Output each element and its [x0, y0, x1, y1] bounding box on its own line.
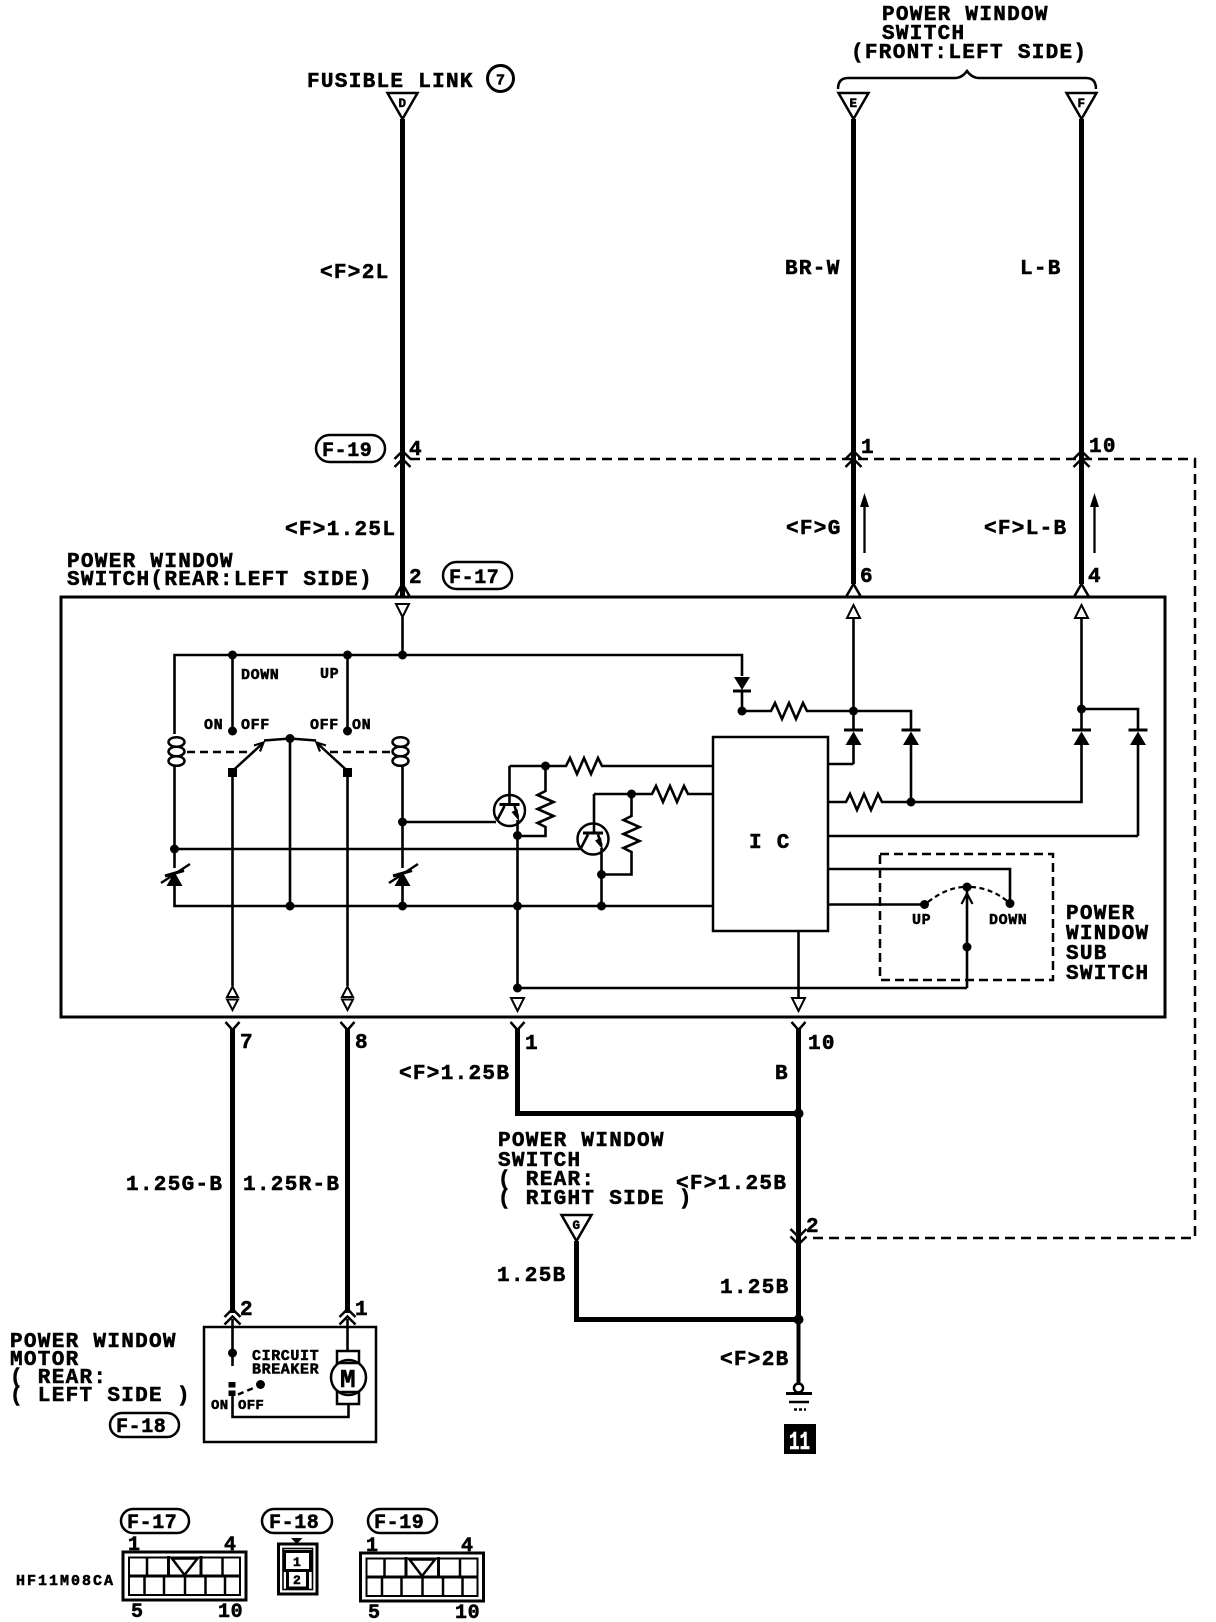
- svg-text:F-19: F-19: [322, 440, 372, 463]
- svg-text:2: 2: [293, 1573, 301, 1588]
- svg-text:F-18: F-18: [269, 1512, 319, 1535]
- exit triangles pin8: [342, 987, 353, 1011]
- label UP sub switch: [912, 912, 931, 929]
- ground reference 11: [784, 1424, 816, 1457]
- wire breaker to motor bottom: [233, 1396, 349, 1417]
- svg-text:1: 1: [861, 437, 875, 460]
- value label B: [775, 1063, 789, 1086]
- contact dot up: [343, 727, 352, 736]
- connector label F-18: [110, 1413, 179, 1439]
- junction dot bottom bus x290: [286, 902, 295, 911]
- svg-text:OFF: OFF: [241, 717, 270, 734]
- svg-text:1.25G-B: 1.25G-B: [126, 1174, 223, 1197]
- T1 collector line with junction: [510, 762, 551, 771]
- wire 1.25R-B pin8 down: [345, 1028, 350, 1313]
- motor pin 1 label: [355, 1299, 369, 1322]
- pin 6 label at box entry: [860, 566, 874, 589]
- value label 1.25G-B: [126, 1174, 223, 1197]
- chevron marks motor pin2: [225, 1309, 241, 1325]
- sub switch pivot dot: [963, 883, 972, 892]
- T1 base line: [403, 821, 497, 824]
- pin 2 label at box entry: [409, 567, 423, 590]
- wire from pin6 entry down: [852, 618, 855, 711]
- wire end flare 2L: [396, 584, 410, 596]
- value label BR-W: [785, 258, 841, 281]
- svg-text:10: 10: [1089, 436, 1117, 459]
- circuit breaker lever: [238, 1380, 265, 1395]
- dashed inter-section boundary line: [410, 459, 1195, 1238]
- IC bottom pin wire: [797, 931, 800, 997]
- label DOWN sub switch: [989, 912, 1027, 929]
- svg-text:B: B: [775, 1063, 789, 1086]
- svg-text:ON: ON: [211, 1398, 228, 1414]
- svg-text:10: 10: [455, 1602, 480, 1622]
- switch lever right: [317, 743, 348, 772]
- connector F-19 pin grid: [361, 1535, 484, 1622]
- connector label F-17: [443, 562, 512, 590]
- value label L-B: [1020, 258, 1062, 281]
- value label G wire: [786, 518, 842, 541]
- svg-text:UP: UP: [912, 912, 931, 929]
- svg-text:L-B: L-B: [1020, 258, 1062, 281]
- transistor T2: [578, 794, 609, 855]
- junction dot bus x232: [228, 651, 237, 660]
- svg-text:F-19: F-19: [374, 1512, 424, 1535]
- value label 1.25B F: [399, 1063, 510, 1086]
- exit triangle pin10: [792, 998, 805, 1011]
- pin 10 fork: [792, 1022, 836, 1056]
- svg-text:UP: UP: [320, 666, 339, 683]
- chevron marks pin2 right switch: [791, 1229, 807, 1245]
- wire from pin2 entry to top bus: [401, 617, 404, 655]
- transistor T1: [494, 766, 525, 826]
- junction dot right coil bottom: [398, 818, 407, 827]
- svg-text:7: 7: [240, 1032, 254, 1055]
- svg-text:E: E: [850, 97, 858, 111]
- T2 collector line with junction: [594, 790, 636, 799]
- pin 2 label right switch: [806, 1216, 820, 1239]
- svg-text:1: 1: [128, 1534, 141, 1557]
- power window motor box: [204, 1327, 376, 1442]
- svg-text:<F>2L: <F>2L: [320, 262, 390, 285]
- connector D triangle: [388, 93, 418, 119]
- junction dot bottom bus x402: [398, 902, 407, 911]
- diode D1: [844, 711, 863, 764]
- diode D0: [733, 677, 751, 711]
- svg-text:ON: ON: [352, 717, 371, 734]
- junction dot bottom bus x517: [513, 902, 522, 911]
- wire D4 to IC: [828, 835, 1138, 838]
- svg-text:( RIGHT SIDE ): ( RIGHT SIDE ): [498, 1188, 693, 1211]
- svg-text:2: 2: [240, 1299, 254, 1322]
- top bus wire: [175, 655, 743, 734]
- resistor R3: [632, 786, 714, 802]
- junction dot T2 emitter R4: [597, 870, 606, 879]
- junction dot bus x403: [398, 651, 407, 660]
- diode D3: [1072, 709, 1091, 745]
- wire IC to sub switch up contact: [828, 903, 921, 906]
- label POWER WINDOW SWITCH (REAR: RIGHT SIDE): [498, 1130, 693, 1211]
- T2 base line: [175, 848, 581, 851]
- value label 1.25B left: [497, 1265, 567, 1288]
- junction dot bus x347: [343, 651, 352, 660]
- label POWER WINDOW MOTOR (REAR: LEFT SIDE): [10, 1331, 191, 1408]
- wire motor pin1 into box: [346, 1319, 349, 1352]
- switch lever left: [233, 743, 264, 772]
- chevron marks motor pin1: [340, 1309, 356, 1325]
- resistor R6 line IC to D3: [828, 745, 1082, 810]
- wire 2B to ground: [797, 1320, 801, 1386]
- svg-text:7: 7: [496, 73, 506, 90]
- junction dot pin1 column: [513, 984, 522, 993]
- junction dot F column: [1077, 705, 1086, 714]
- svg-text:4: 4: [461, 1535, 474, 1558]
- sub switch common wire with arrow: [962, 891, 973, 988]
- resistor R2: [518, 766, 554, 836]
- wire end flare L-B: [1075, 584, 1089, 596]
- wire T2 emitter: [600, 848, 603, 906]
- svg-text:( LEFT SIDE ): ( LEFT SIDE ): [10, 1385, 191, 1408]
- motor M1: [331, 1351, 366, 1404]
- svg-text:<F>1.25B: <F>1.25B: [399, 1063, 510, 1086]
- svg-text:HF11M08CA: HF11M08CA: [16, 1573, 115, 1590]
- svg-text:M: M: [340, 1365, 356, 1395]
- svg-text:BREAKER: BREAKER: [252, 1362, 319, 1379]
- pin 4 label at box entry: [1088, 566, 1102, 589]
- svg-text:DOWN: DOWN: [241, 667, 279, 684]
- connector F triangle: [1067, 93, 1097, 119]
- wire end flare BR-W: [847, 584, 861, 596]
- wire pin7 column: [231, 775, 234, 986]
- junction dot bottom bus x601: [597, 902, 606, 911]
- svg-text:4: 4: [409, 439, 423, 462]
- value label 1.25B right: [720, 1277, 790, 1300]
- label POWER WINDOW SWITCH (FRONT:LEFT SIDE): [851, 4, 1087, 65]
- label OFF breaker: [238, 1398, 264, 1414]
- connector F-18 pin grid: [279, 1538, 318, 1594]
- sub switch lever arcs: [928, 887, 1007, 902]
- svg-text:FUSIBLE LINK: FUSIBLE LINK: [307, 71, 474, 94]
- wire 2L from fusible link D down to box: [400, 119, 405, 597]
- svg-text:8: 8: [355, 1032, 369, 1055]
- entry triangle pin2: [396, 604, 409, 617]
- connector E triangle: [839, 93, 869, 119]
- label FUSIBLE LINK: [307, 71, 474, 94]
- chevron marks on wire BR-W at dashed line: [846, 451, 862, 467]
- value label 2B: [720, 1349, 790, 1372]
- diode D2: [902, 730, 921, 802]
- svg-text:10: 10: [218, 1601, 243, 1622]
- resistor R5 line to E and D2: [742, 703, 911, 729]
- svg-text:2: 2: [806, 1216, 820, 1239]
- relay coil right: [393, 737, 409, 766]
- ground symbol: [786, 1384, 812, 1410]
- pin 10 label: [1089, 436, 1117, 459]
- label CIRCUIT BREAKER: [252, 1348, 319, 1379]
- svg-text:F: F: [1078, 97, 1086, 111]
- wire Z2 to bottom bus: [401, 886, 404, 906]
- label DOWN: [241, 667, 279, 684]
- wire L-B from F down to box: [1079, 119, 1084, 584]
- svg-text:DOWN: DOWN: [989, 912, 1027, 929]
- wire UP contact: [346, 655, 349, 728]
- wire B pin10 down: [796, 1028, 801, 1322]
- svg-text:1: 1: [525, 1033, 539, 1056]
- wire pin8 column: [346, 775, 349, 986]
- exit triangle pin1: [511, 998, 524, 1011]
- svg-text:<F>G: <F>G: [786, 518, 842, 541]
- wire from pin4 entry down: [1080, 618, 1083, 709]
- pin 7 fork: [226, 1022, 254, 1055]
- value label 1.25L: [285, 519, 396, 542]
- direction arrow beside BR-W wire: [860, 493, 869, 553]
- wire IC to sub switch down contact: [828, 869, 1010, 900]
- entry triangle pin4: [1075, 605, 1088, 618]
- svg-text:4: 4: [1088, 566, 1102, 589]
- svg-text:1: 1: [366, 1535, 379, 1558]
- exit triangles pin7: [227, 987, 238, 1011]
- svg-text:F-17: F-17: [127, 1512, 177, 1535]
- label POWER WINDOW SUB SWITCH: [1066, 903, 1149, 986]
- connector label F-17 bottom: [121, 1509, 189, 1535]
- wire D1 to IC: [828, 763, 854, 766]
- junction dot T1 emitter: [513, 831, 522, 840]
- chevron marks on wire L-B at dashed line: [1074, 451, 1090, 467]
- svg-text:SWITCH(REAR:LEFT SIDE): SWITCH(REAR:LEFT SIDE): [67, 569, 373, 592]
- diode D4: [1129, 730, 1148, 836]
- svg-text:1.25B: 1.25B: [497, 1265, 567, 1288]
- value label 1.25B F right: [676, 1173, 787, 1196]
- label ON left: [204, 717, 223, 734]
- pin 1 fork: [511, 1022, 539, 1056]
- label UP: [320, 666, 339, 683]
- wire Z1 to bottom bus: [175, 886, 714, 906]
- svg-text:1.25R-B: 1.25R-B: [243, 1174, 340, 1197]
- footnote code HF11M08CA: [16, 1573, 115, 1590]
- svg-text:I C: I C: [749, 832, 791, 855]
- svg-text:<F>1.25B: <F>1.25B: [676, 1173, 787, 1196]
- svg-text:10: 10: [808, 1033, 836, 1056]
- wire pivot common: [289, 739, 292, 907]
- chevron marks on wire 2L at F-19: [395, 451, 411, 467]
- pin 4 label at F-19: [409, 439, 423, 462]
- IC U1: [713, 737, 828, 931]
- junction dot D2 bottom: [907, 798, 916, 807]
- junction dot D0: [738, 707, 747, 716]
- entry triangle pin6: [847, 605, 860, 618]
- wire 1.25B from G to ground node: [577, 1241, 799, 1320]
- svg-text:F-17: F-17: [449, 567, 499, 590]
- resistor R1: [546, 758, 714, 774]
- svg-text:D: D: [399, 97, 407, 111]
- svg-text:6: 6: [860, 566, 874, 589]
- switch bar left: [264, 739, 290, 741]
- sub switch up contact dot: [920, 900, 929, 909]
- svg-text:5: 5: [131, 1601, 144, 1622]
- svg-text:F-18: F-18: [116, 1416, 166, 1439]
- connector F-17 pin grid: [123, 1534, 246, 1622]
- wire T1 emitter: [516, 820, 519, 836]
- resistor R4: [602, 794, 640, 875]
- svg-text:OFF: OFF: [238, 1398, 264, 1414]
- mechanical link left: [187, 751, 252, 754]
- label OFF left: [241, 717, 270, 734]
- svg-text:11: 11: [789, 1427, 810, 1457]
- svg-text:OFF: OFF: [310, 717, 339, 734]
- label ON breaker: [211, 1398, 228, 1414]
- connector label F-18 bottom: [262, 1509, 332, 1535]
- motor pin 2 label: [240, 1299, 254, 1322]
- wire 1.25G-B pin7 down: [230, 1028, 235, 1313]
- value label L-B lower: [984, 518, 1067, 541]
- wire left coil to base line: [173, 766, 176, 868]
- svg-text:BR-W: BR-W: [785, 258, 841, 281]
- svg-text:1.25B: 1.25B: [720, 1277, 790, 1300]
- svg-text:5: 5: [368, 1602, 381, 1622]
- junction dot 1.25B join: [794, 1109, 804, 1119]
- pin 1 label: [861, 437, 875, 460]
- wire DOWN contact: [231, 655, 234, 728]
- svg-text:<F>2B: <F>2B: [720, 1349, 790, 1372]
- wire 1.25B pin1 down and right: [518, 1028, 799, 1114]
- direction arrow beside L-B wire: [1090, 493, 1099, 553]
- wire T1 emitter to pin1: [516, 836, 519, 989]
- mechanical link right: [326, 751, 390, 754]
- label POWER WINDOW SWITCH(REAR:LEFT SIDE): [67, 551, 373, 592]
- lever pad left: [228, 768, 237, 777]
- junction dot ground node: [794, 1315, 804, 1325]
- label OFF right: [310, 717, 339, 734]
- switch pivot dot: [286, 734, 295, 743]
- power window sub switch dashed box: [880, 854, 1053, 980]
- wire right coil down: [401, 766, 404, 868]
- rear left switch box: [61, 597, 1165, 1017]
- pin 8 fork: [341, 1022, 369, 1055]
- fusible link circled 7: [488, 66, 514, 92]
- value label 2L: [320, 262, 390, 285]
- circuit breaker contacts: [229, 1353, 236, 1396]
- svg-text:SWITCH: SWITCH: [1066, 963, 1149, 986]
- switch bar right: [290, 739, 316, 741]
- svg-text:1: 1: [293, 1555, 301, 1570]
- svg-text:(FRONT:LEFT SIDE): (FRONT:LEFT SIDE): [851, 42, 1087, 65]
- relay coil left: [169, 737, 185, 766]
- sub switch down contact dot: [1006, 899, 1015, 908]
- value label 1.25R-B: [243, 1174, 340, 1197]
- circuit breaker contact dot: [228, 1349, 237, 1358]
- zener Z2: [389, 864, 418, 886]
- lever pad right: [343, 768, 352, 777]
- wire F to D4: [1082, 709, 1139, 729]
- brace over front switch: [838, 71, 1096, 89]
- zener Z1: [161, 864, 190, 886]
- connector label F-19 bottom: [368, 1509, 437, 1535]
- svg-text:1: 1: [355, 1299, 369, 1322]
- wire BR-W from E down to box: [851, 119, 856, 584]
- svg-text:2: 2: [409, 567, 423, 590]
- connector label F-19: [316, 435, 385, 463]
- junction dot left coil bottom: [170, 845, 179, 854]
- junction dot E column: [849, 707, 858, 716]
- connector G triangle: [562, 1215, 592, 1241]
- svg-text:<F>1.25L: <F>1.25L: [285, 519, 396, 542]
- svg-text:ON: ON: [204, 717, 223, 734]
- wire motor pin2 into box: [231, 1319, 234, 1352]
- sub switch return line: [518, 987, 968, 990]
- svg-text:4: 4: [224, 1534, 237, 1557]
- label ON right: [352, 717, 371, 734]
- contact dot down: [228, 727, 237, 736]
- svg-text:G: G: [573, 1219, 581, 1233]
- svg-text:<F>L-B: <F>L-B: [984, 518, 1067, 541]
